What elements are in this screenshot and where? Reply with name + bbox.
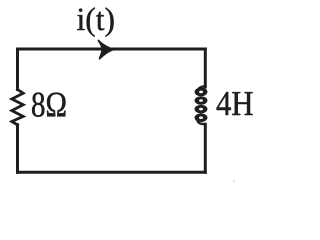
current arrow head (98, 41, 113, 59)
wire left lower (16, 125, 19, 173)
coil ring 1 (197, 89, 205, 95)
resistor R 8ohm zigzag (12, 90, 23, 125)
coil exit (198, 121, 206, 124)
inductor L 4H coil (197, 86, 206, 124)
coil ring 4 (197, 115, 205, 121)
label i(t) (77, 7, 113, 37)
speck (233, 180, 235, 182)
coil ring 2 (197, 98, 205, 104)
wire left upper (16, 49, 19, 90)
wire right lower (204, 124, 207, 172)
wire right upper (204, 49, 207, 87)
label 8 ohm (32, 93, 65, 117)
coil entry hook (198, 86, 205, 89)
wire bottom (18, 171, 206, 174)
label 4H (217, 92, 253, 115)
wire top (18, 48, 206, 51)
coil ring 3 (197, 106, 205, 112)
